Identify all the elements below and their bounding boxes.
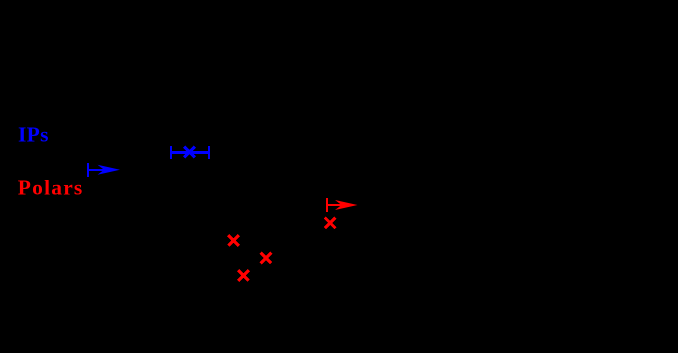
Polar data point X 4 [325,218,336,229]
Polar data point X 2 [261,253,272,264]
IP limit arrow head [98,165,121,175]
IP limit arrow stem [89,169,105,171]
IP errorbar left cap [170,146,172,159]
Polar data point X 1 [228,235,239,246]
IP errorbar right cap [208,146,210,159]
IP data point X [184,147,195,158]
Polar limit arrow cap [326,198,328,212]
svg-text:Polars: Polars [18,176,83,200]
Polar limit arrow stem [328,204,344,206]
IP limit arrow cap [87,163,89,177]
Polar limit arrow head [335,200,358,210]
Polar data point X 3 [238,270,249,281]
svg-text:IPs: IPs [18,123,49,147]
IP errorbar bar [170,151,210,154]
